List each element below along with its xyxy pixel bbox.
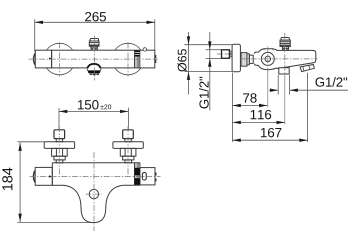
dimension 265 extension line left [34,19,36,51]
dimension 150±20 ext lines [58,108,60,131]
label Ø65 [177,49,186,71]
front view left union [44,130,74,163]
top view diverter knob [89,39,99,50]
dimension G1/2 outlet [277,75,279,95]
body left joint line [51,163,53,186]
label G1/2" [199,77,209,109]
label 265 [85,12,106,21]
label 167 [261,128,281,137]
dimension 150±20 line [59,110,128,112]
top view joint arrow [49,57,52,59]
union L flange [44,142,74,149]
label 184 [2,168,12,190]
front view knurl lines [136,163,139,185]
label ±20 [100,104,111,109]
dimension 116 [233,121,285,123]
side view circle vertical centerline [267,47,269,74]
nipple thread tabs [229,51,232,53]
dimension 265 arrow right [147,21,155,24]
right cap slot [142,172,146,180]
dimension G1/2 left [206,49,222,51]
body bottom edge left [52,184,64,186]
dimension 265 arrow left [35,21,43,24]
flow knob black band [87,70,100,73]
top view centerline horizontal [29,58,159,60]
screw circle centerline [86,193,102,195]
top view body outline [52,50,155,68]
union R flange [113,142,143,149]
body top edge [52,162,140,164]
top view centerline middle [93,36,95,81]
dimension 184 line [19,143,21,222]
spout side [277,50,316,68]
cone connector [247,54,249,65]
label 78 [243,93,257,102]
dimension 167 [233,139,308,141]
union L screw head [54,130,65,139]
union L hex nut [52,148,68,156]
front view centerline union right [127,126,129,177]
knurl band edges [134,163,136,186]
union R neck2 [125,160,132,163]
union L collar [54,156,65,160]
top view knurl lines [136,50,139,68]
167 extension right [307,73,309,142]
front view body [34,163,157,223]
union R neck [125,139,131,142]
top view left cap dome arc [34,53,36,65]
nipple centerline [217,53,232,55]
front view screw circle [89,189,98,198]
angled outlet [300,65,314,72]
dimension 184 ext lines [18,141,44,143]
front view knurl black blocks [135,168,140,176]
top view knurl black block [135,51,140,57]
top view screw circle [143,48,146,51]
body left cap [35,167,52,185]
body left cap dome arc [34,171,36,183]
top view flow knob (bottom, dark) [87,64,101,71]
diverter knob side [280,38,290,51]
side view knob vertical centerline [284,33,286,75]
top view left handle circle [47,43,73,50]
dimension Ø65 [184,44,232,46]
right cap [140,168,155,185]
wall extension line [232,73,234,143]
union R screw head [123,130,134,139]
union R collar [123,156,134,160]
union L neck [56,139,62,142]
handle axis circles [261,52,274,65]
union L neck2 [56,160,63,163]
top view knurl band left edge [134,50,136,68]
wall flange [232,44,240,72]
side view main centerline [240,58,318,60]
body bottom edge right [123,184,140,186]
dimension 265 line [35,21,155,23]
top view centerline left handle [59,42,61,76]
front view right union [113,130,143,163]
dimension 265 extension line right [154,19,156,50]
label G1/2" [315,77,347,87]
wall nipple [222,50,230,59]
dimension 78 [233,105,268,107]
front view centerline middle vertical [93,152,95,231]
flow knob base [90,74,99,75]
label 116 [251,110,272,119]
outlet tab [279,68,289,74]
union hex nut side [241,53,253,67]
top view right cap joint [139,50,141,68]
boss ticks [263,49,265,51]
top view right nub [155,55,157,58]
top view centerline right handle [127,42,129,76]
right nub [155,173,157,176]
top view right handle circle [115,43,141,50]
front view centerline union left [58,126,60,177]
flange back line [240,53,242,65]
front view centerline horizontal [30,176,161,178]
top view left end cap [35,50,51,68]
union R hex nut [120,148,136,156]
label 150 [78,100,99,109]
front view joint arrow [49,175,52,177]
valve housing [254,49,276,54]
bell curve spout fairing [64,185,124,222]
